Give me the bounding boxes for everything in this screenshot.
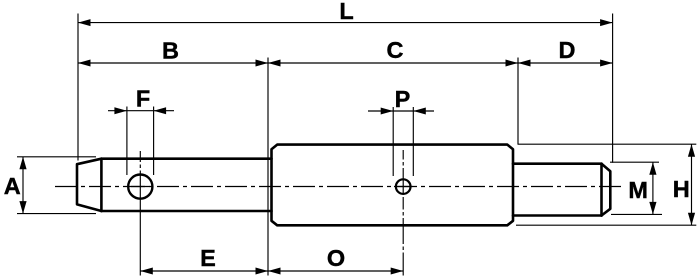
dimension L bbox=[78, 0, 613, 26]
dimension M bbox=[610, 162, 662, 214]
dimension F bbox=[108, 85, 174, 175]
svg-text:F: F bbox=[136, 85, 150, 111]
dimension H bbox=[516, 144, 696, 225]
svg-text:O: O bbox=[327, 245, 345, 271]
svg-text:E: E bbox=[200, 245, 216, 271]
svg-text:M: M bbox=[628, 177, 648, 203]
middle hole vertical centerline bbox=[402, 150, 404, 276]
dimension A bbox=[4, 157, 96, 214]
extension line C/D boundary bbox=[517, 58, 519, 145]
middle cylinder body bbox=[272, 145, 514, 226]
extension line B/C and E/O boundary bbox=[267, 58, 269, 276]
dimension D bbox=[518, 37, 613, 67]
dimension C bbox=[268, 37, 518, 67]
dimension O bbox=[268, 245, 403, 275]
middle hole bbox=[394, 179, 413, 194]
svg-text:L: L bbox=[339, 0, 353, 24]
svg-text:H: H bbox=[673, 176, 690, 202]
left hole vertical centerline bbox=[139, 151, 141, 276]
dimension B bbox=[78, 38, 268, 67]
left hole bbox=[128, 175, 152, 199]
svg-text:A: A bbox=[4, 173, 21, 199]
right threaded stud body bbox=[513, 164, 610, 216]
extension line left end (L/B) bbox=[77, 14, 79, 161]
svg-text:P: P bbox=[395, 86, 411, 112]
dimension P bbox=[368, 86, 434, 176]
extension line right end (L/D) bbox=[612, 14, 614, 163]
left pin body bbox=[77, 159, 272, 211]
svg-text:D: D bbox=[559, 37, 576, 63]
centerline main axis bbox=[55, 186, 622, 188]
svg-text:C: C bbox=[387, 37, 404, 63]
dimension E bbox=[140, 245, 268, 275]
svg-text:B: B bbox=[162, 38, 179, 64]
